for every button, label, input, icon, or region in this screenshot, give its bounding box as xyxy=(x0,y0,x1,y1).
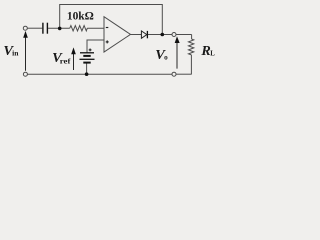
svg-text:L: L xyxy=(210,50,215,57)
svg-text:ref: ref xyxy=(60,56,71,65)
svg-text:10kΩ: 10kΩ xyxy=(67,10,94,22)
svg-text:o: o xyxy=(164,53,168,61)
svg-text:in: in xyxy=(12,49,19,58)
